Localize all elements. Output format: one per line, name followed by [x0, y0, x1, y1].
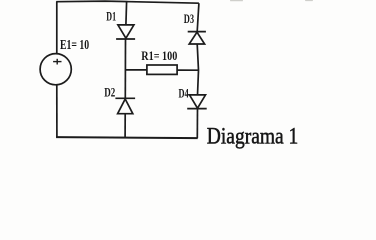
diode D2: [115, 98, 135, 113]
wire branch D2 bottom: [124, 114, 126, 138]
wire left rail upper: [56, 1, 58, 54]
wire bottom rail: [56, 137, 198, 138]
diode D4: [187, 95, 207, 109]
wire branch D3-D4 middle: [197, 44, 198, 95]
resistor R1 body: [147, 65, 177, 74]
svg-text:R1= 100: R1= 100: [141, 49, 177, 63]
svg-text:D2: D2: [104, 84, 115, 99]
wire left rail lower: [56, 85, 58, 138]
svg-text:E1= 10: E1= 10: [60, 37, 89, 52]
wire branch D4 bottom: [196, 109, 198, 139]
wire resistor left: [125, 69, 147, 71]
diode D1: [116, 25, 135, 39]
diode D3: [188, 32, 206, 44]
wire branch D1-D2 middle: [124, 39, 126, 98]
svg-text:D1: D1: [106, 10, 116, 24]
svg-text:D3: D3: [184, 12, 194, 26]
wire top rail: [56, 1, 199, 3]
svg-text:D4: D4: [179, 86, 189, 100]
voltage source E1: [40, 54, 71, 85]
wire branch D3 top: [197, 3, 199, 31]
svg-text:Diagrama 1: Diagrama 1: [207, 123, 298, 149]
wire branch D1 top: [125, 1, 128, 25]
polarity plus mark: [53, 59, 61, 65]
wire resistor right: [177, 69, 198, 71]
